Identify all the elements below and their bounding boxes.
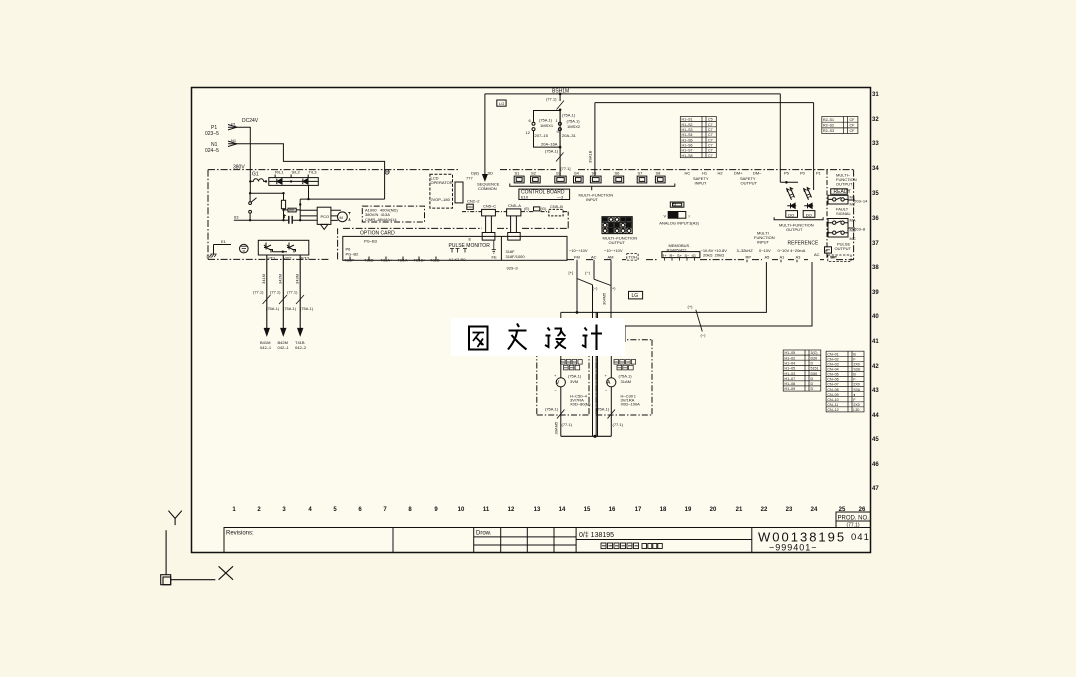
snubber box C5 (288, 208, 296, 212)
svg-text:H1–S3: H1–S3 (682, 128, 693, 132)
svg-text:H1–S4: H1–S4 (682, 133, 693, 137)
svg-text:CN–02: CN–02 (827, 357, 838, 361)
svg-text:20A–16A: 20A–16A (541, 142, 558, 147)
svg-text:(75A.1): (75A.1) (568, 374, 582, 379)
svg-text:11: 11 (483, 507, 490, 513)
svg-text:CN2–2: CN2–2 (467, 199, 480, 204)
svg-text:024–5: 024–5 (205, 148, 219, 154)
svg-text:10: 10 (458, 507, 465, 513)
svg-text:FE: FE (492, 255, 497, 260)
svg-text:X0D–100A: X0D–100A (621, 402, 641, 407)
contact 1MSX1 (532, 122, 535, 125)
svg-text:203–8: 203–8 (854, 227, 866, 232)
svg-text:(−): (−) (585, 270, 591, 275)
svg-text:P1: P1 (231, 122, 237, 127)
svg-text:PCO: PCO (321, 214, 330, 219)
svg-text:(77.1): (77.1) (287, 290, 298, 295)
svg-text:AM: AM (608, 255, 614, 260)
svg-text:RP: RP (746, 255, 752, 260)
svg-text:FM: FM (574, 255, 580, 260)
svg-text:203–14: 203–14 (854, 199, 868, 204)
svg-text:3(C): 3(C) (811, 351, 818, 355)
resistor R1 (281, 200, 285, 208)
CN5-B dashed box (549, 209, 563, 216)
svg-text:PG–B2: PG–B2 (346, 252, 360, 257)
ground G1 hatch (210, 254, 217, 257)
svg-text:OPERATOR: OPERATOR (431, 180, 453, 185)
svg-text:S1: S1 (515, 171, 521, 176)
FE pin (492, 240, 496, 253)
polarity slash (696, 310, 703, 332)
svg-text:RS485/422: RS485/422 (667, 247, 688, 252)
svg-text:(75A.1): (75A.1) (545, 149, 559, 154)
memobus pins (665, 258, 695, 261)
IGBT Q1 (264, 243, 273, 253)
S1 dip box (670, 202, 684, 207)
dc bus wire (234, 219, 317, 221)
svg-text:(G): (G) (541, 206, 547, 211)
output arrows (264, 328, 302, 335)
svg-text:[+]: [+] (569, 270, 574, 275)
PCO box (317, 207, 331, 224)
svg-text:DM−: DM− (753, 171, 762, 176)
meter labels (545, 373, 640, 435)
svg-text:E10: E10 (521, 195, 529, 200)
right mid table B (12 rows) (826, 351, 864, 412)
svg-text:C7: C7 (708, 154, 713, 158)
svg-text:207–15: 207–15 (535, 133, 549, 138)
LG box mid (629, 291, 643, 299)
svg-text:CN–11: CN–11 (827, 403, 838, 407)
motor M1 (338, 212, 348, 222)
svg-text:H1–05: H1–05 (785, 367, 796, 371)
svg-text:OUTPUT: OUTPUT (786, 227, 803, 232)
svg-text:3VM: 3VM (570, 379, 578, 384)
svg-text:CN–08: CN–08 (827, 388, 838, 392)
svg-text:H1–S8: H1–S8 (682, 154, 693, 158)
IGBT Q2 (287, 243, 296, 253)
reference row terminal ticks (577, 260, 797, 262)
svg-text:S2: S2 (531, 171, 537, 176)
svg-text:(−): (−) (593, 286, 599, 291)
svg-text:(+): (+) (688, 304, 694, 309)
rectifier diode box (269, 178, 319, 186)
svg-text:D: D (811, 362, 814, 366)
svg-text:H1–04: H1–04 (785, 362, 796, 366)
svg-text:T31A+: T31A+ (381, 258, 394, 263)
top terminal table 8 rows (680, 117, 716, 158)
svg-text:PULSE MONITOR: PULSE MONITOR (449, 243, 491, 249)
svg-text:H1–S7: H1–S7 (682, 149, 693, 153)
right labels (569, 173, 869, 338)
svg-text:17: 17 (635, 507, 642, 513)
bracket under DO (774, 217, 823, 220)
svg-text:S1: S1 (672, 202, 678, 207)
svg-text:OPTION CARD: OPTION CARD (360, 231, 395, 237)
svg-text:Drow.: Drow. (476, 531, 492, 537)
wires inverter outputs (267, 255, 300, 330)
svg-text:OUTPUT: OUTPUT (741, 181, 758, 186)
svg-text:INPUT: INPUT (586, 197, 599, 202)
svg-text:LG: LG (499, 101, 504, 106)
terminal S7 (637, 176, 647, 183)
AC wire (593, 262, 595, 279)
contact MA/MB/MC (833, 221, 836, 224)
svg-text:16: 16 (609, 507, 616, 513)
svg-text:32: 32 (872, 117, 879, 123)
svg-text:0/‡ 138195: 0/‡ 138195 (579, 532, 614, 539)
relay switch slash (557, 101, 565, 110)
svg-text:P0: P0 (800, 171, 806, 176)
svg-text:TB1B+: TB1B+ (414, 258, 427, 263)
svg-text:TB1A−: TB1A− (398, 258, 411, 263)
svg-text:2X0: 2X0 (853, 383, 859, 387)
svg-text:5151: 5151 (811, 367, 819, 371)
svg-text:C7: C7 (708, 123, 713, 127)
svg-text:47: 47 (872, 486, 879, 492)
svg-text:D: D (811, 387, 814, 391)
title block: prod no box (836, 512, 871, 528)
svg-text:DO: DO (788, 212, 794, 217)
svg-text:342M: 342M (278, 274, 283, 284)
svg-text:C7: C7 (708, 149, 713, 153)
svg-text:X0D–80(M): X0D–80(M) (570, 402, 591, 407)
svg-text:PROD. NO.: PROD. NO. (838, 516, 870, 522)
TOH box (627, 254, 638, 261)
watermark char SHE (545, 328, 566, 349)
CN5-A connector (507, 209, 521, 216)
svg-text:21: 21 (736, 507, 743, 513)
svg-text:R2–S2: R2–S2 (823, 124, 834, 128)
svg-text:REFERENCE: REFERENCE (788, 241, 820, 247)
A wire (610, 344, 612, 436)
LCD connector bar (455, 182, 463, 203)
wire top B (595, 103, 814, 176)
svg-text:R+: R+ (662, 253, 668, 258)
svg-text:[77.1]: [77.1] (561, 166, 571, 171)
inverter IGBT box (258, 240, 309, 255)
svg-text:CN–03: CN–03 (827, 363, 838, 367)
svg-text:S/L2: S/L2 (292, 170, 301, 175)
svg-text:T35B: T35B (364, 258, 374, 263)
svg-text:30AM5: 30AM5 (554, 421, 559, 434)
svg-text:CF: CF (850, 124, 856, 128)
svg-text:DM+: DM+ (734, 171, 743, 176)
svg-text:H1–S1: H1–S1 (682, 118, 693, 122)
svg-text:—3: —3 (557, 195, 564, 200)
svg-text:TOH: TOH (629, 255, 637, 260)
terminal S5 (590, 176, 601, 183)
svg-text:(75A.1): (75A.1) (300, 306, 314, 311)
svg-text:(77.1): (77.1) (562, 422, 573, 427)
meter slashes (557, 410, 615, 419)
wire pair down (593, 285, 598, 437)
svg-text:AC: AC (814, 252, 820, 257)
svg-text:CN5–C: CN5–C (483, 204, 496, 209)
svg-text:34: 34 (872, 166, 879, 172)
svg-text:(−): (−) (701, 333, 707, 338)
bottom ruler numbers 1-24 (232, 507, 866, 513)
junction dots right (576, 181, 830, 314)
svg-text:14: 14 (559, 507, 566, 513)
ground triangle under PCO (321, 224, 328, 229)
svg-text:SIGNAL: SIGNAL (836, 211, 851, 216)
svg-text:CF: CF (850, 129, 856, 133)
relay frame left branch (534, 111, 561, 148)
svg-text:12: 12 (526, 130, 531, 135)
svg-text:31: 31 (872, 92, 879, 98)
svg-text:OUTPUT: OUTPUT (835, 246, 852, 251)
svg-text:CN–05: CN–05 (827, 373, 838, 377)
pulse monitor pins (450, 249, 467, 253)
svg-text:(77.1): (77.1) (546, 97, 557, 102)
svg-text:DC24V: DC24V (242, 118, 259, 124)
svg-text:♦: ♦ (853, 393, 855, 397)
watermark char TU (469, 327, 488, 350)
svg-text:CN–04: CN–04 (827, 368, 838, 372)
option card box (343, 236, 567, 260)
DO box 2 (803, 211, 815, 218)
svg-text:H1: H1 (702, 171, 708, 176)
reference wire A5 (561, 262, 767, 318)
diode PD2 (804, 203, 813, 208)
wires PCO to motor (331, 210, 341, 220)
svg-text:2X0: 2X0 (853, 403, 859, 407)
PE earth circle (240, 244, 249, 253)
meter CJK name blobs (561, 360, 636, 370)
crossover diagonals (577, 279, 611, 286)
svg-text:V/T2: V/T2 (283, 256, 292, 261)
svg-text:M: M (340, 215, 343, 220)
svg-text:24: 24 (811, 507, 818, 513)
svg-text:C7: C7 (708, 128, 713, 132)
svg-text:2X0: 2X0 (853, 363, 859, 367)
MP dashed box (828, 255, 851, 262)
svg-text:SD: SD (488, 171, 494, 176)
diode D2 (303, 179, 308, 185)
svg-text:CN–06: CN–06 (827, 378, 838, 382)
svg-text:CN–12: CN–12 (827, 408, 838, 412)
svg-text:V: V (664, 214, 667, 219)
watermark char WEN (508, 324, 527, 350)
svg-text:33: 33 (872, 141, 879, 147)
svg-text:042–2: 042–2 (295, 345, 307, 350)
A1000 label box (362, 206, 424, 222)
svg-text:39: 39 (872, 290, 879, 296)
svg-text:2RK: 2RK (467, 205, 473, 209)
svg-text:(+): (+) (611, 286, 617, 291)
FM wire (576, 262, 578, 312)
terminal S2 (531, 176, 541, 183)
svg-text:LG: LG (632, 293, 639, 299)
control board dash-dot boundary (500, 169, 854, 171)
svg-text:H1–S6: H1–S6 (682, 143, 693, 147)
contact M1/M2 (833, 198, 836, 201)
terminal S4 (574, 176, 584, 183)
svg-text:H1–S5: H1–S5 (682, 138, 693, 142)
svg-text:−10~+10V: −10~+10V (569, 248, 588, 253)
bottom tie wire (561, 435, 612, 437)
svg-text:N1: N1 (231, 138, 237, 143)
svg-text:INPUT: INPUT (695, 181, 708, 186)
svg-text:A3: A3 (796, 255, 802, 260)
svg-text:H2: H2 (718, 171, 724, 176)
svg-text:AC: AC (591, 255, 597, 260)
junction dot meters (593, 435, 596, 438)
svg-text:380V: 380V (233, 165, 245, 171)
LG box top (497, 100, 506, 106)
svg-text:(75A.1): (75A.1) (619, 374, 633, 379)
svg-text:R2–S1: R2–S1 (823, 118, 834, 122)
wire A down to P5 (780, 94, 798, 182)
pulse output box (825, 247, 832, 253)
svg-text:45: 45 (872, 437, 879, 443)
svg-text:37: 37 (872, 241, 879, 247)
svg-text:BG: BG (207, 254, 213, 259)
terminal S8 (655, 176, 665, 183)
node P1 wire (228, 127, 250, 181)
wire pair 2 (595, 312, 597, 436)
junction dots center (559, 93, 562, 149)
svg-text:W/T3: W/T3 (300, 256, 310, 261)
node N1 wire (228, 144, 385, 199)
wire 203-14 (848, 199, 855, 201)
svg-text:23: 23 (786, 507, 793, 513)
svg-text:CN–01: CN–01 (827, 352, 838, 356)
svg-text:43: 43 (872, 388, 879, 394)
svg-text:OUTPUT: OUTPUT (609, 240, 626, 245)
diode PD1 (787, 203, 796, 208)
svg-text:CN–09: CN–09 (827, 393, 838, 397)
photocoupler PC1 (787, 188, 795, 200)
svg-text:INPUT: INPUT (757, 240, 770, 245)
circled minus on boundary (385, 170, 389, 174)
svg-text:BSH1M: BSH1M (552, 89, 569, 95)
power section labels (205, 118, 525, 271)
right mid table A (8 rows) (783, 350, 821, 391)
svg-text:(75A.1): (75A.1) (567, 119, 581, 124)
V wire (560, 356, 562, 436)
svg-text:C5: C5 (708, 118, 713, 122)
svg-text:CN5–A: CN5–A (508, 203, 521, 208)
svg-text:A1 K2 R0: A1 K2 R0 (449, 257, 467, 262)
svg-text:P5: P5 (784, 171, 790, 176)
svg-text:IG: IG (692, 253, 696, 258)
svg-text:C7: C7 (708, 143, 713, 147)
reference wire AC (625, 262, 812, 342)
junction dots power (249, 180, 310, 253)
DO box 1 (786, 211, 798, 218)
ammeter A1 (607, 378, 616, 387)
svg-text:H1–09: H1–09 (785, 387, 796, 391)
rotated output labels (261, 274, 300, 284)
svg-text:15: 15 (584, 507, 591, 513)
svg-text:023–5: 023–5 (205, 131, 219, 137)
wire E1 (214, 245, 232, 254)
sheet border frame (192, 88, 871, 553)
svg-text:A1: A1 (780, 255, 786, 260)
svg-text:H1–08: H1–08 (785, 382, 796, 386)
svg-text:E1: E1 (221, 239, 227, 244)
svg-text:(77.1): (77.1) (270, 290, 281, 295)
svg-text:041: 041 (851, 532, 870, 543)
svg-text:(75A.1): (75A.1) (539, 118, 553, 123)
svg-text:ANALOG INPUT3(A3): ANALOG INPUT3(A3) (659, 221, 699, 226)
wire break slashes (263, 295, 305, 304)
svg-text:I: I (689, 214, 690, 219)
svg-text:P1: P1 (816, 171, 822, 176)
drive unit boundary (dash-dot) (208, 169, 460, 171)
svg-text:H1–03: H1–03 (785, 372, 796, 376)
diode D1 (277, 179, 282, 185)
svg-text:JVOP–180: JVOP–180 (431, 197, 451, 202)
svg-text:C7: C7 (708, 138, 713, 142)
svg-text:COMMON: COMMON (478, 186, 497, 191)
svg-text:31AM: 31AM (621, 379, 631, 384)
svg-text:HC: HC (685, 171, 691, 176)
svg-text:S3: S3 (556, 171, 562, 176)
svg-text:C7: C7 (708, 133, 713, 137)
svg-text:20: 20 (710, 507, 717, 513)
svg-text:S3U: S3U (853, 368, 860, 372)
svg-text:CN–07: CN–07 (827, 383, 838, 387)
svg-text:D: D (811, 377, 814, 381)
svg-text:H1–07: H1–07 (785, 377, 796, 381)
svg-text:−10~+10V: −10~+10V (604, 248, 623, 253)
svg-text:S3U: S3U (853, 388, 860, 392)
svg-text:MA: MA (850, 218, 856, 223)
svg-text:CF: CF (850, 118, 856, 122)
svg-text:S7: S7 (638, 171, 644, 176)
wire B down to P1 (813, 103, 815, 190)
svg-text:41: 41 (872, 339, 879, 345)
svg-text:13: 13 (534, 507, 541, 513)
svg-text:T/L3: T/L3 (309, 170, 318, 175)
svg-text:42: 42 (872, 364, 879, 370)
option terminals ticks (350, 257, 436, 261)
center labels (431, 89, 822, 259)
svg-text:H1–05: H1–05 (785, 351, 796, 355)
AM wire (610, 262, 612, 329)
svg-text:OUTPUT: OUTPUT (836, 182, 853, 187)
meter boundary V (dash-dot) (537, 340, 589, 415)
svg-text:19: 19 (685, 507, 692, 513)
wire igbt mid (273, 251, 288, 253)
svg-text:(75A.1): (75A.1) (266, 306, 280, 311)
svg-text:Revisions:: Revisions: (226, 531, 254, 537)
svg-text:46: 46 (872, 462, 879, 468)
svg-text:20A–31: 20A–31 (562, 133, 577, 138)
svg-text:H1–S2: H1–S2 (682, 123, 693, 127)
svg-text:−999401−: −999401− (769, 543, 818, 553)
svg-text:TB3P: TB3P (344, 258, 354, 263)
svg-text:A5: A5 (765, 255, 771, 260)
CN5-C connector (482, 209, 496, 216)
meter boundary A (dash-dot) (596, 340, 652, 415)
svg-text:(E): (E) (524, 206, 530, 211)
svg-text:35: 35 (872, 191, 879, 197)
svg-text:T31B−: T31B− (430, 258, 443, 263)
photocoupler PC2 (804, 188, 812, 200)
svg-text:(75A.1): (75A.1) (596, 407, 610, 412)
wire left dc feed (250, 181, 283, 200)
svg-text:H1–02: H1–02 (785, 356, 796, 360)
LCD operator dashed box (430, 174, 453, 208)
memobus terminal box (662, 252, 700, 258)
svg-text:40: 40 (872, 314, 879, 320)
control board label box (519, 189, 570, 199)
READY box (831, 189, 848, 194)
